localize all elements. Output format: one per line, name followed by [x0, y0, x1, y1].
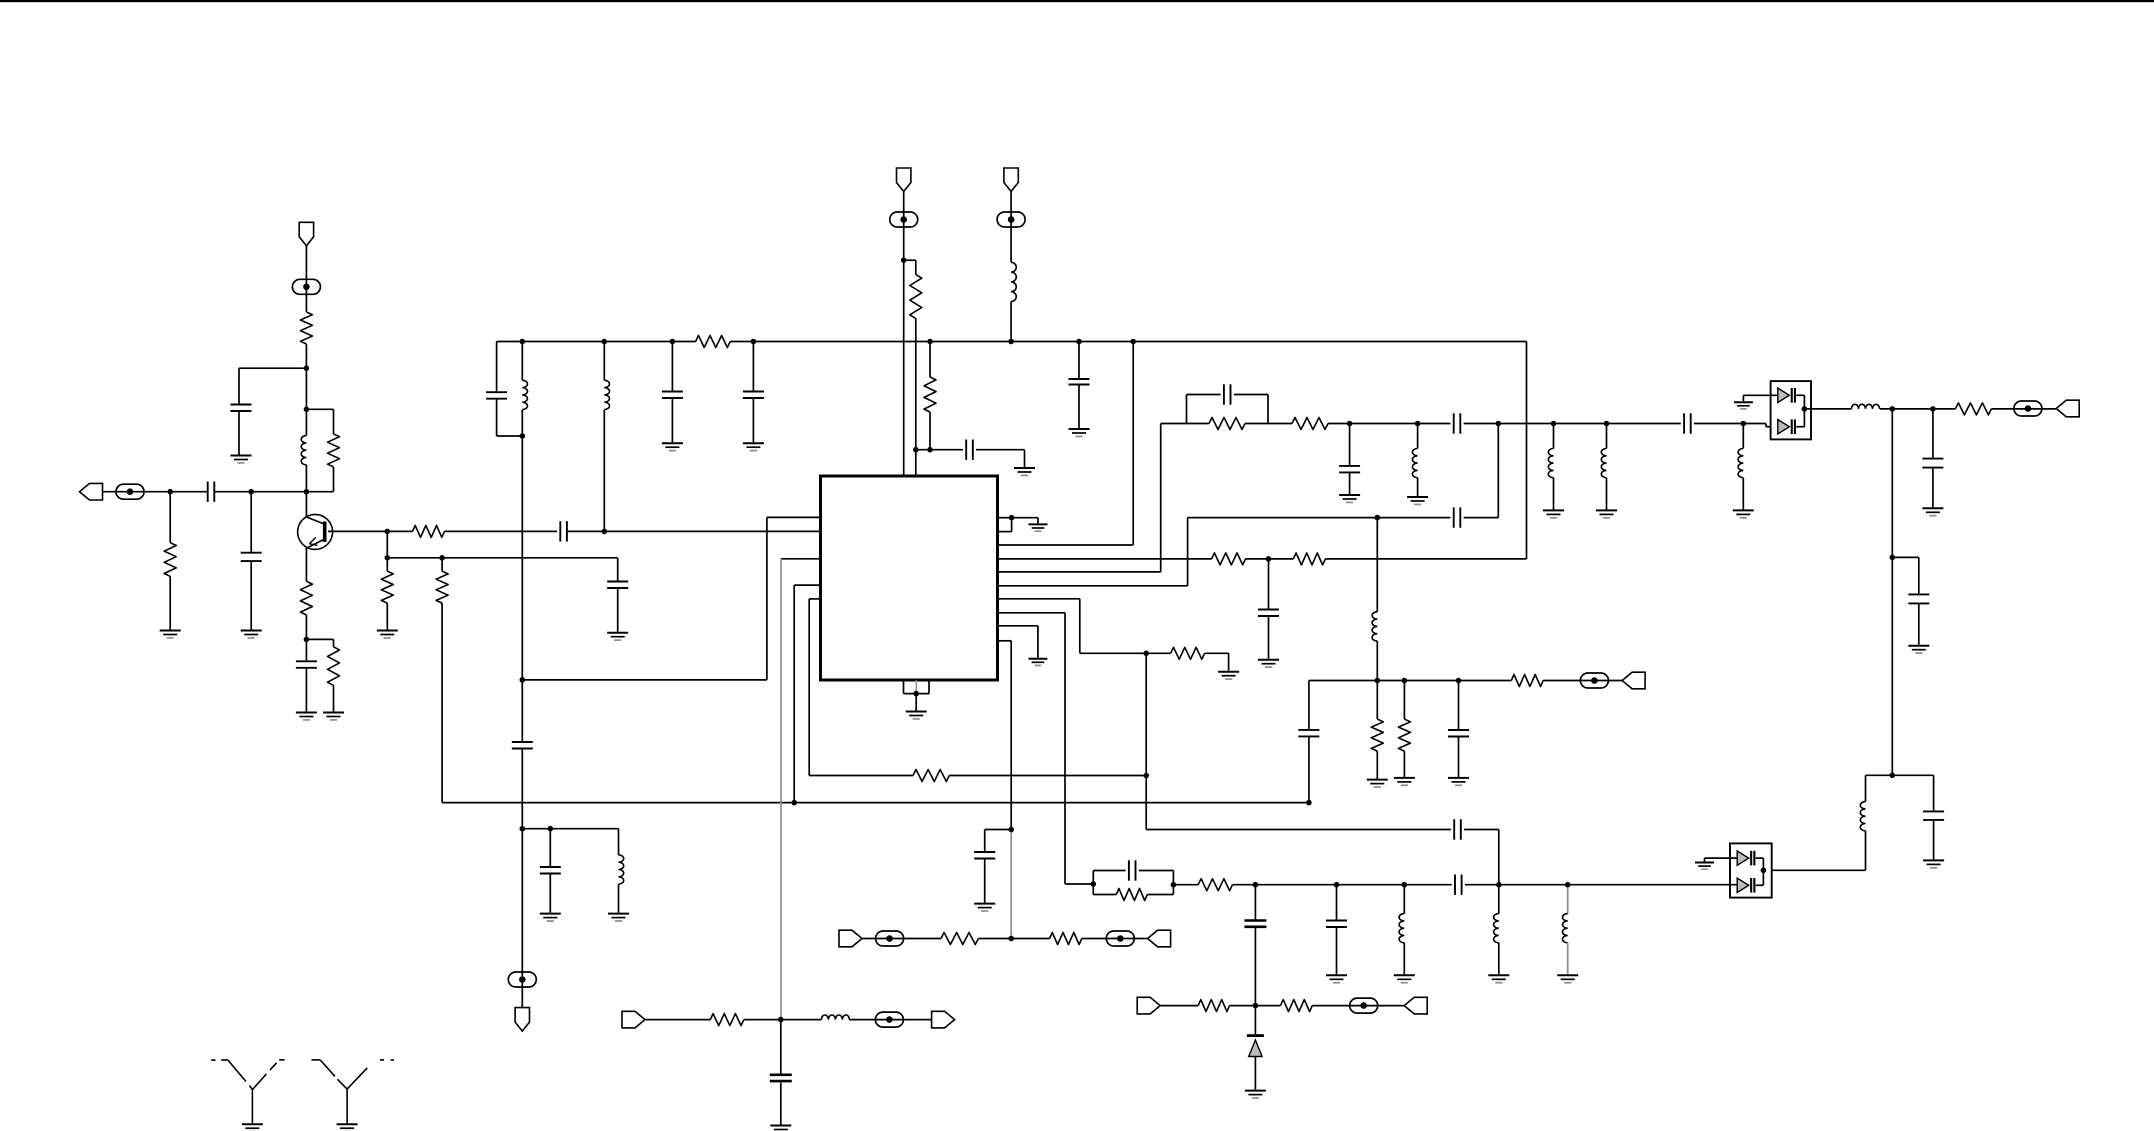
ground GND38	[770, 1126, 791, 1131]
wire	[1464, 423, 1681, 425]
inductor L15	[1372, 612, 1377, 641]
wire	[998, 640, 1012, 642]
wire	[250, 561, 252, 629]
ground GND29	[1695, 863, 1714, 870]
wire	[1866, 774, 1893, 776]
wire	[1762, 870, 1764, 885]
inductor L3	[619, 855, 624, 884]
wire	[730, 341, 1526, 343]
junction J6	[385, 529, 391, 535]
junction J26	[1008, 936, 1014, 942]
wire	[102, 491, 207, 493]
wire	[1187, 518, 1189, 586]
junction B6	[1008, 339, 1014, 345]
junction J35	[1890, 555, 1896, 561]
wire	[521, 342, 523, 381]
junction J36	[1890, 773, 1896, 779]
resistor R13	[1212, 553, 1246, 565]
wire	[645, 1019, 710, 1021]
ground GND27	[1908, 646, 1929, 653]
wire	[1205, 652, 1229, 654]
wire	[849, 1019, 931, 1021]
capacitor C4	[296, 661, 317, 668]
resistor R3	[328, 434, 340, 467]
wire	[985, 829, 1012, 831]
ground GND7	[607, 633, 628, 640]
wire	[1012, 517, 1038, 519]
diode pack D1 box	[1771, 381, 1811, 439]
wire	[1132, 342, 1134, 546]
wire	[1464, 517, 1499, 519]
wire	[998, 558, 1212, 560]
wire	[998, 517, 1012, 519]
resistor R1	[164, 543, 176, 577]
port P4	[1404, 997, 1427, 1014]
wire	[1082, 938, 1148, 940]
wire	[1146, 829, 1451, 831]
test point TP6	[2014, 401, 2042, 416]
capacitor C29	[1298, 730, 1319, 737]
wire	[752, 398, 754, 442]
ground GND19	[974, 904, 995, 911]
wire	[904, 259, 916, 261]
capacitor C2	[241, 553, 262, 561]
wire	[928, 680, 930, 694]
inductor L6	[1412, 449, 1417, 478]
wire	[1803, 395, 1805, 409]
resistor R26	[941, 933, 978, 945]
wire	[915, 680, 917, 694]
wire	[1933, 820, 1935, 860]
capacitor C12	[966, 440, 973, 460]
diode pack D2 box	[1730, 843, 1772, 897]
wire	[169, 492, 171, 543]
wire	[1161, 423, 1209, 425]
ground GND34	[1367, 780, 1388, 787]
inductor L1	[301, 436, 306, 465]
wire	[1376, 518, 1378, 612]
wire	[1526, 342, 1528, 559]
wire	[793, 585, 795, 803]
capacitor C16	[1454, 819, 1461, 839]
resistor R9	[696, 336, 731, 348]
wire	[522, 828, 618, 830]
junction J30	[1551, 421, 1557, 427]
wire	[1804, 408, 1851, 410]
junction J45	[1375, 678, 1381, 684]
transistor Q1	[298, 514, 333, 549]
ground GND30	[1326, 975, 1347, 982]
resistor R24	[1198, 1000, 1229, 1012]
junction J1	[167, 489, 173, 495]
junction B8	[1130, 339, 1136, 345]
junction B3	[670, 339, 676, 345]
wire	[1376, 681, 1378, 720]
junction J33	[1890, 406, 1896, 412]
capacitor C7	[486, 392, 507, 399]
ground GND5	[323, 713, 344, 720]
wire	[1803, 409, 1805, 427]
wire	[603, 410, 605, 532]
wire	[1037, 518, 1039, 524]
port P1 RF input	[80, 483, 103, 500]
inductor L2	[522, 380, 527, 409]
ground GND21	[1407, 497, 1428, 504]
resistor R18	[1955, 403, 1991, 415]
resistor R22	[1398, 719, 1410, 751]
wire	[1245, 423, 1292, 425]
capacitor C19	[1339, 466, 1360, 473]
wire	[1188, 517, 1451, 519]
junction B5	[927, 339, 933, 345]
junction J48	[1008, 827, 1014, 833]
wire	[1606, 478, 1608, 510]
wire	[1349, 472, 1351, 494]
junction B1	[520, 339, 526, 345]
wire	[497, 435, 523, 437]
wire	[333, 639, 335, 646]
wire	[1037, 626, 1039, 658]
wire	[386, 531, 388, 557]
capacitor C27	[1244, 921, 1266, 927]
junction B2	[602, 339, 608, 345]
ground GND37	[1245, 1091, 1266, 1098]
inductor L10	[1852, 404, 1880, 409]
capacitor C25	[1129, 860, 1136, 880]
wire	[305, 615, 307, 660]
junction J44	[1306, 800, 1312, 806]
resistor R11	[924, 377, 936, 412]
antenna Y2	[312, 1060, 395, 1124]
junction J14	[548, 826, 554, 832]
ground GND17	[1218, 672, 1239, 679]
junction J21	[1143, 773, 1149, 779]
ground GND10	[540, 914, 561, 921]
wire	[386, 603, 388, 629]
junction J12	[520, 677, 526, 683]
wire	[1458, 737, 1460, 777]
ground GND11	[608, 914, 629, 921]
capacitor C10	[512, 742, 533, 749]
capacitor C22	[1922, 459, 1943, 468]
wire	[1606, 424, 1608, 449]
wire	[441, 558, 443, 571]
wire	[744, 1019, 822, 1021]
wire	[250, 492, 252, 552]
ground GND32	[1488, 975, 1509, 982]
junction J24	[1375, 515, 1381, 521]
test point TP7	[1350, 998, 1378, 1013]
wire	[1918, 603, 1920, 644]
capacitor C18	[1224, 384, 1231, 404]
wire	[1093, 870, 1125, 872]
junction J4	[304, 365, 310, 371]
wire	[671, 342, 673, 391]
wire	[617, 588, 619, 632]
resistor R15	[1171, 647, 1205, 659]
wire	[1567, 885, 1569, 914]
wire	[1704, 858, 1706, 861]
junction J46	[1402, 678, 1408, 684]
wire	[1892, 774, 1933, 776]
wire	[305, 246, 307, 312]
ground GND9	[743, 443, 764, 450]
wire	[1064, 613, 1066, 884]
ground GND18	[1029, 659, 1048, 666]
inductor L8	[1601, 449, 1606, 478]
port P6	[622, 1011, 645, 1028]
diode D1b	[1778, 419, 1796, 434]
wire	[1765, 424, 1767, 427]
wire	[1567, 943, 1569, 975]
wire	[549, 874, 551, 913]
test point TP1	[116, 484, 144, 499]
wire	[781, 558, 821, 560]
wire	[1403, 885, 1405, 914]
capacitor C23	[1908, 594, 1929, 603]
wire	[306, 408, 333, 410]
wire	[767, 516, 821, 518]
port P7	[932, 1011, 955, 1028]
wire	[929, 342, 931, 378]
inductor L7	[1548, 449, 1553, 478]
junction J8	[385, 555, 391, 561]
ground GND20	[1339, 495, 1360, 502]
ground GND3	[231, 456, 252, 463]
wire	[618, 829, 620, 855]
wire	[1498, 943, 1500, 975]
capacitor C17	[974, 852, 995, 859]
resistor R21	[1371, 719, 1383, 751]
resistor R8	[436, 571, 448, 603]
ground GND25	[1734, 402, 1753, 409]
port P5	[1148, 930, 1171, 947]
wire	[903, 192, 905, 477]
wire	[1694, 423, 1766, 425]
wire	[1254, 1006, 1256, 1035]
diode D2a	[1737, 851, 1755, 866]
wire	[442, 557, 618, 559]
wire	[1079, 599, 1081, 654]
inductor L4	[604, 380, 609, 409]
wire	[998, 571, 1161, 573]
capacitor C11	[540, 867, 561, 874]
wire	[808, 599, 810, 776]
junction J15	[901, 257, 907, 263]
wire	[567, 530, 821, 532]
diode D2b	[1737, 878, 1755, 893]
wire	[1254, 885, 1256, 920]
wire	[1173, 884, 1198, 886]
test point TP5	[997, 212, 1025, 227]
resistor R16	[1209, 418, 1245, 430]
wire	[1458, 681, 1460, 730]
port P3	[1137, 997, 1160, 1014]
wire	[998, 612, 1066, 614]
wire	[1246, 558, 1294, 560]
wire	[1308, 681, 1310, 729]
ground GND1	[160, 631, 181, 638]
test point TP4	[890, 212, 918, 227]
wire	[169, 576, 171, 629]
capacitor C3	[231, 405, 252, 412]
junction J7	[304, 637, 310, 643]
wire	[1092, 871, 1094, 895]
wire	[1498, 885, 1500, 914]
wire	[1403, 681, 1405, 720]
resistor R20	[1198, 879, 1232, 891]
wire	[780, 1020, 782, 1074]
wire	[618, 884, 620, 913]
wire	[984, 830, 986, 852]
wire	[1796, 426, 1804, 428]
wire	[929, 412, 931, 450]
wire	[1756, 884, 1764, 886]
junction J17	[927, 447, 933, 453]
wire	[333, 467, 335, 492]
wire	[445, 530, 558, 532]
wire	[305, 344, 307, 436]
wire	[1230, 1005, 1281, 1007]
wire	[1497, 424, 1499, 518]
wire	[1187, 394, 1221, 396]
ground GND4	[296, 713, 317, 720]
wire	[1705, 857, 1738, 859]
wire	[1011, 518, 1013, 532]
junction J20	[791, 800, 797, 806]
junction J37	[1171, 882, 1177, 888]
wire	[305, 548, 307, 582]
wire	[442, 802, 1309, 804]
capacitor C24	[1923, 811, 1944, 820]
wire	[1465, 884, 1737, 886]
ground GND24	[1733, 510, 1754, 517]
wire	[1742, 478, 1744, 510]
inductor L16	[821, 1015, 849, 1020]
wire	[1918, 557, 1920, 593]
wire	[239, 367, 306, 369]
capacitor C13	[1069, 379, 1090, 385]
wire	[903, 680, 905, 694]
wire	[1891, 409, 1893, 775]
wire	[215, 491, 334, 493]
capacitor C9	[743, 392, 764, 399]
wire	[1756, 857, 1764, 859]
junction J39	[1334, 882, 1340, 888]
wire	[916, 449, 963, 451]
power port PWR3	[1004, 168, 1018, 192]
junction J38	[1253, 882, 1259, 888]
junction J19	[778, 1017, 784, 1023]
resistor R6	[413, 525, 445, 537]
ground GND31	[1394, 975, 1415, 982]
antenna Y1	[211, 1060, 285, 1124]
wire	[978, 938, 1049, 940]
junction J40	[1402, 882, 1408, 888]
inductor L13	[1494, 914, 1499, 943]
capacitor C30	[1448, 730, 1469, 737]
resistor R12	[913, 770, 949, 782]
wire	[1268, 559, 1270, 609]
wire	[1010, 641, 1012, 830]
ground GND8	[662, 443, 683, 450]
junction B7	[1076, 339, 1082, 345]
wire	[1172, 871, 1174, 895]
junction J18	[913, 691, 919, 697]
wire	[1147, 894, 1173, 896]
wire	[1417, 478, 1419, 496]
inductor L9	[1738, 449, 1743, 478]
wire	[496, 399, 498, 436]
wire	[521, 410, 523, 436]
test point TP2	[292, 279, 320, 294]
wire	[780, 1083, 782, 1125]
wire	[998, 585, 1188, 587]
wire	[1403, 751, 1405, 777]
wire	[617, 558, 619, 581]
wire	[1766, 426, 1778, 428]
junction J22	[1009, 515, 1015, 521]
wire	[1228, 653, 1230, 670]
wire	[766, 517, 768, 680]
wire	[949, 775, 1146, 777]
capacitor C6	[607, 582, 628, 589]
wire	[1742, 395, 1744, 401]
ground GND14	[906, 712, 927, 719]
ground GND28	[1923, 860, 1944, 867]
resistor R19	[1116, 889, 1147, 901]
junction J50	[1761, 868, 1767, 874]
wire	[497, 341, 696, 343]
junction J3	[304, 489, 310, 495]
wire	[1267, 395, 1269, 424]
wire	[1078, 342, 1080, 379]
ground GND12	[1014, 468, 1035, 475]
junction J21b	[1143, 651, 1149, 657]
junction J11	[520, 433, 526, 439]
wire	[386, 558, 388, 571]
ground GND23	[1596, 510, 1617, 517]
junction J9	[439, 555, 445, 561]
power port PWR2	[897, 168, 911, 192]
ground GND22	[1543, 510, 1564, 517]
wire	[1742, 424, 1744, 449]
wire	[521, 749, 523, 1008]
capacitor C21	[1684, 413, 1691, 433]
wire	[1880, 408, 1956, 410]
ground GND36	[1448, 778, 1469, 785]
junction J47	[1456, 678, 1462, 684]
wire	[1308, 736, 1310, 802]
wire	[1498, 830, 1500, 885]
resistor R25	[1281, 1000, 1313, 1012]
wire	[238, 368, 240, 404]
top border bar	[0, 0, 2154, 2]
port P2	[2056, 400, 2079, 417]
junction J27	[1347, 421, 1353, 427]
test point TP9	[1106, 931, 1134, 946]
junction J43	[1253, 1003, 1259, 1009]
resistor R23	[1511, 675, 1543, 687]
wire	[998, 531, 1012, 533]
wire	[1932, 468, 1934, 508]
ground GND2	[241, 631, 262, 638]
junction J5	[304, 407, 310, 413]
wire	[1312, 1005, 1404, 1007]
wire	[671, 398, 673, 442]
wire	[1139, 870, 1174, 872]
ground GND13	[1069, 429, 1090, 436]
